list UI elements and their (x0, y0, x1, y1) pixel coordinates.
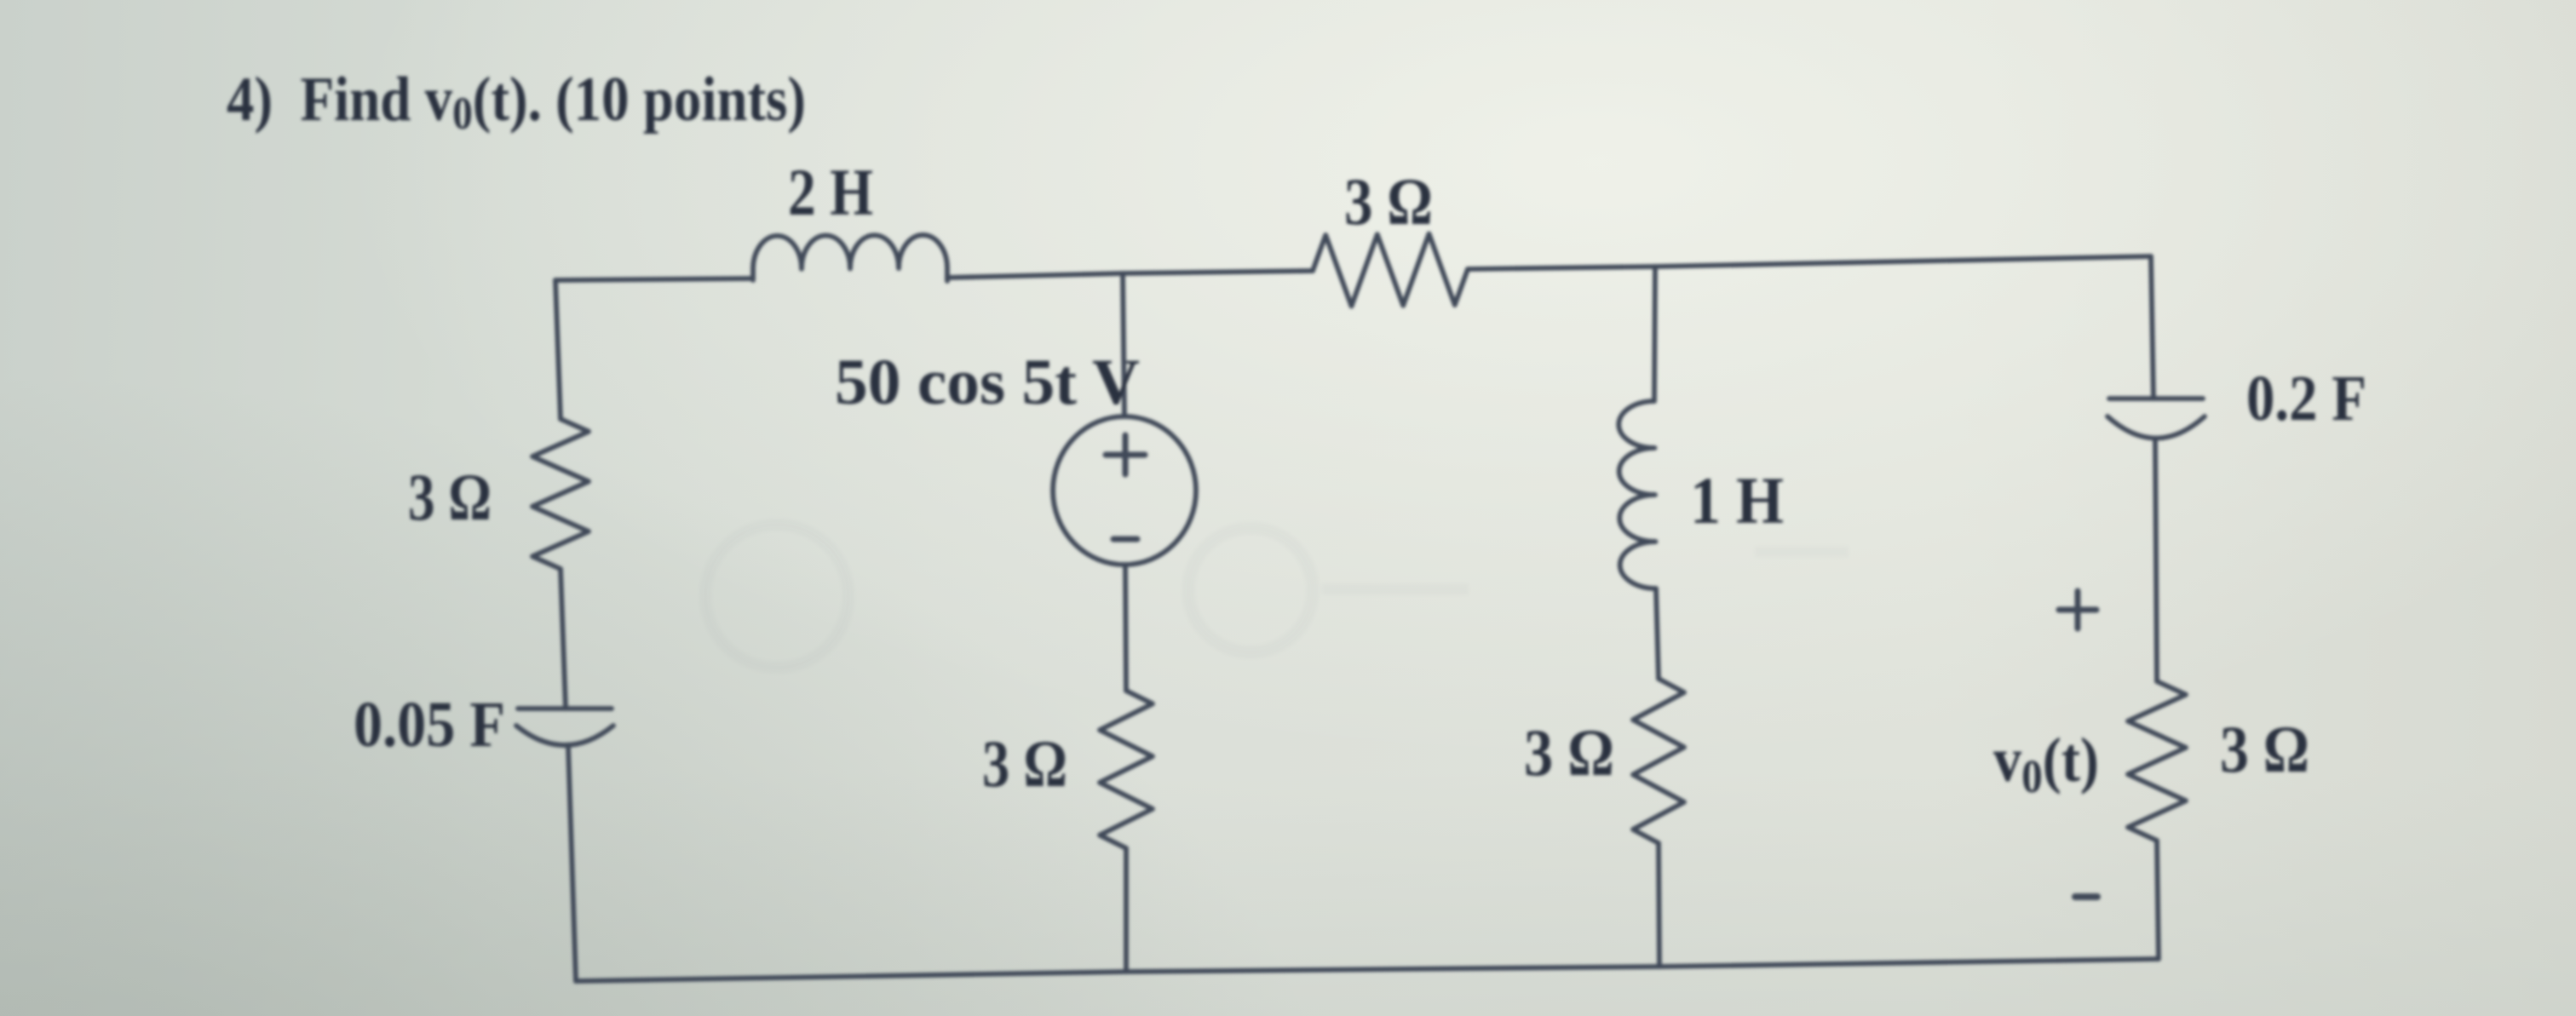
wire left branch lower (568, 746, 576, 981)
resistor 3 ohm top (1313, 234, 1468, 307)
wire left branch middle (561, 569, 566, 709)
svg-text:v0(t): v0(t) (1993, 726, 2099, 802)
inductor 1 H (1619, 401, 1656, 588)
wire bottom rail (node F to node G) (1126, 967, 1659, 972)
wire bottom rail (node G to corner H) (1659, 959, 2159, 967)
svg-text:3 Ω: 3 Ω (408, 460, 492, 534)
capacitor 0.2 F plate 1 (2109, 396, 2203, 401)
resistor 3 ohm right (vo) (2128, 681, 2186, 841)
wire 1H branch middle (1656, 588, 1659, 679)
wire top rail left (corner A to inductor) (555, 278, 752, 280)
svg-text:3 Ω: 3 Ω (1344, 164, 1433, 238)
wire 1H branch upper (1654, 267, 1655, 401)
svg-text:0.05 F: 0.05 F (354, 689, 505, 761)
svg-text:2 H: 2 H (788, 155, 873, 229)
wire top rail (resistor to node C) (1468, 267, 1655, 269)
wire right branch middle (2155, 439, 2157, 681)
plus sign (vo polarity) (2059, 591, 2096, 629)
svg-text:3 Ω: 3 Ω (1524, 715, 1614, 789)
resistor 3 ohm (1H branch) (1633, 679, 1684, 843)
capacitor 0.05 F plate 1 (518, 706, 612, 711)
inductor 2 H (753, 235, 947, 281)
wire top rail (node B to resistor) (1123, 271, 1313, 273)
wire source branch upper (1123, 273, 1124, 416)
wire right branch upper (2151, 256, 2153, 399)
wire right branch lower (2157, 841, 2159, 959)
svg-text:3 Ω: 3 Ω (2220, 712, 2309, 786)
wire top rail (node C to corner D) (1655, 256, 2151, 267)
svg-text:1 H: 1 H (1690, 463, 1784, 537)
faint bleed-through ghost marks (705, 525, 1849, 668)
svg-text:0.2 F: 0.2 F (2246, 363, 2366, 434)
svg-text:50 cos 5t V: 50 cos 5t V (835, 347, 1140, 418)
source minus sign (1113, 537, 1137, 542)
wire top rail (inductor to node B) (947, 273, 1123, 278)
svg-text:3 Ω: 3 Ω (982, 726, 1067, 801)
wire source branch lower (1124, 848, 1129, 972)
minus sign (vo polarity) (2075, 893, 2097, 900)
voltage source 50 cos 5t V circle (1053, 416, 1196, 565)
resistor 3 ohm middle (1100, 691, 1153, 848)
capacitor 0.05 F plate 2 (curved) (516, 726, 613, 745)
svg-text:4) Find v0(t). (10 points): 4) Find v0(t). (10 points) (227, 65, 806, 139)
wire 1H branch lower (1659, 843, 1659, 967)
resistor 3 ohm left (532, 419, 589, 569)
wire left branch upper (555, 280, 561, 419)
capacitor 0.2 F plate 2 (curved) (2107, 416, 2205, 439)
wire bottom rail (corner E to node F) (576, 972, 1126, 981)
wire source branch middle (1125, 565, 1126, 691)
source plus sign (1106, 435, 1145, 474)
